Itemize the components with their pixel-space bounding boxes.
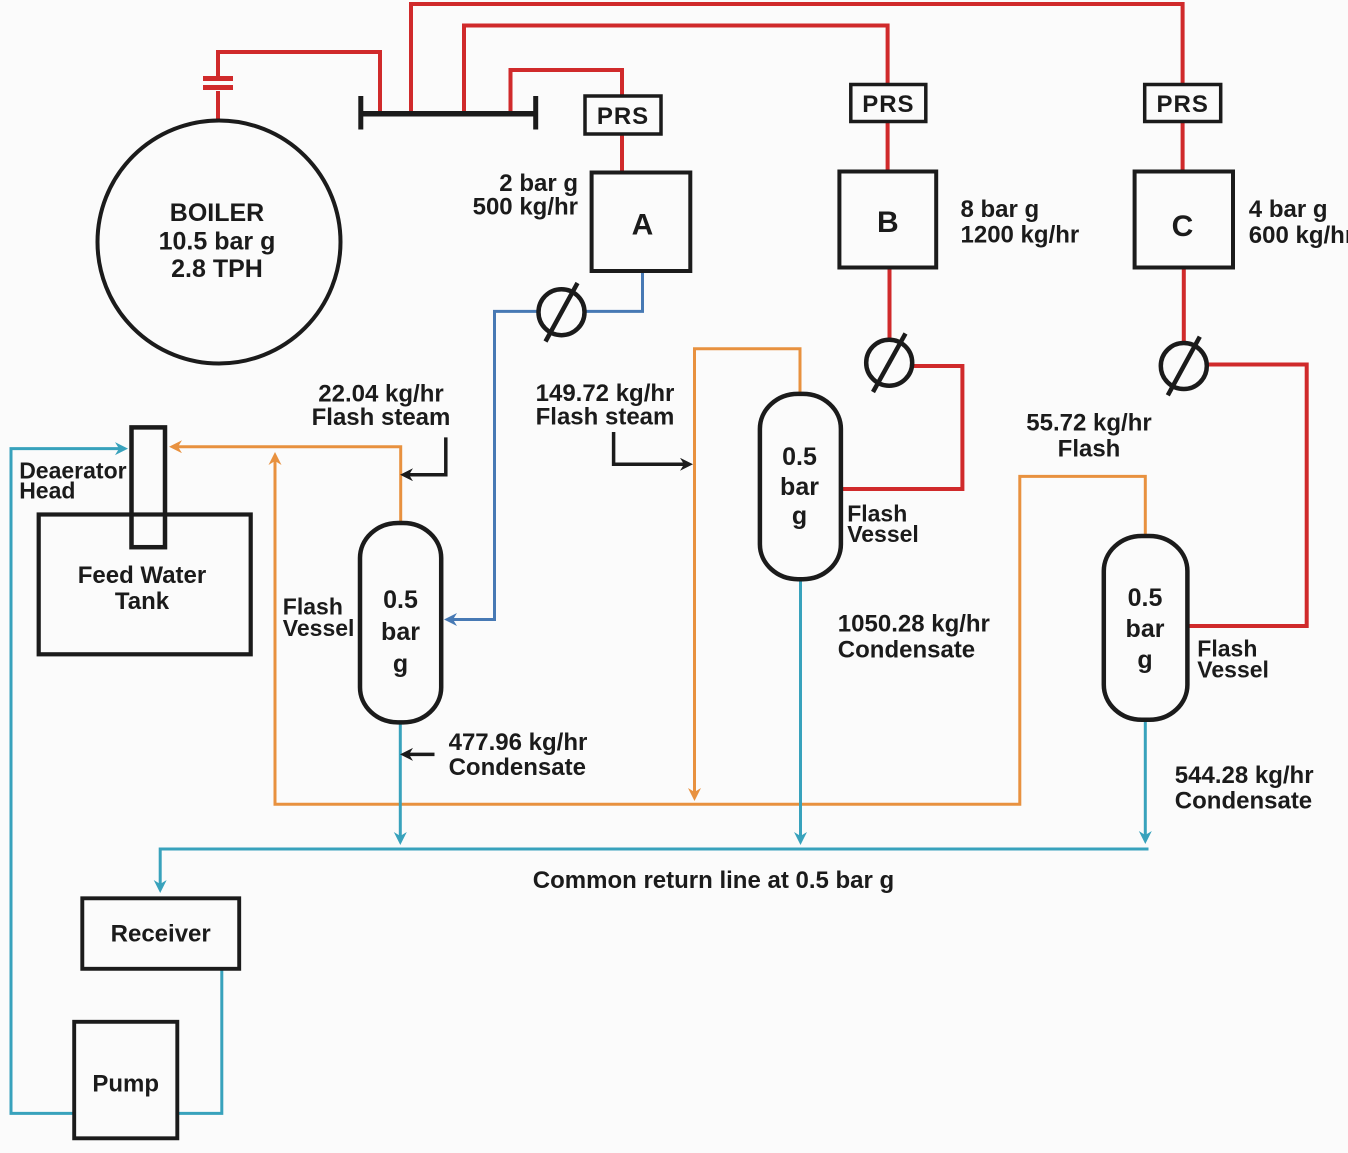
- wire header to PRS A (red): [511, 70, 623, 112]
- FV3 label: [1197, 636, 1269, 683]
- wire valve V2 to flash vessel FV2 (red): [843, 366, 962, 489]
- wire boiler steam riser (red): [218, 52, 380, 122]
- svg-text:Vessel: Vessel: [283, 615, 355, 641]
- svg-text:bar: bar: [780, 473, 819, 501]
- boiler label: [159, 199, 276, 283]
- label 4 bar g / 600 kg/hr: [1249, 196, 1348, 249]
- boiler: [98, 121, 341, 364]
- wire header to PRS C (red, topmost): [411, 4, 1183, 112]
- flash vessel FV3: [1104, 536, 1188, 720]
- svg-text:Common return line at 0.5 bar: Common return line at 0.5 bar g: [533, 867, 894, 894]
- wire FV1 flash steam to deaerator head (orange, arrow): [173, 447, 401, 522]
- wire receiver to pump (cyan): [179, 969, 222, 1113]
- receiver: [82, 898, 239, 969]
- svg-text:4 bar g: 4 bar g: [1249, 196, 1328, 223]
- flash vessel FV1: [360, 523, 441, 722]
- label 477.96 kg/hr Condensate: [449, 729, 588, 781]
- svg-text:600 kg/hr: 600 kg/hr: [1249, 222, 1348, 249]
- svg-text:Condensate: Condensate: [1175, 788, 1312, 815]
- svg-text:PRS: PRS: [862, 91, 914, 118]
- label 1050.28 kg/hr Condensate: [838, 611, 990, 664]
- PRS C box: [1145, 85, 1221, 122]
- svg-text:Condensate: Condensate: [838, 637, 975, 664]
- valve V2 (below B): [866, 334, 912, 393]
- svg-text:bar: bar: [381, 618, 420, 646]
- deaerator head: [132, 427, 166, 547]
- wire FV2 flash steam down to common flash line (orange, arrow): [695, 349, 801, 797]
- svg-text:Feed Water: Feed Water: [78, 562, 206, 589]
- valve V3 (below C): [1161, 337, 1207, 396]
- steam user box C: [1135, 172, 1233, 268]
- pump: [74, 1022, 177, 1139]
- pointer for 477.96 kg/hr label (black, arrow): [404, 753, 435, 757]
- label 8 bar g / 1200 kg/hr: [961, 196, 1080, 248]
- svg-text:Vessel: Vessel: [1197, 656, 1269, 682]
- svg-text:Flash steam: Flash steam: [312, 404, 451, 431]
- steam header manifold: [361, 96, 536, 130]
- wire FV1 condensate to return line (cyan, arrow): [399, 723, 402, 841]
- feed water tank: [39, 515, 251, 655]
- pointer for 22.04 kg/hr label (black, arrow): [404, 437, 446, 474]
- wire pump discharge to deaerator head (cyan, arrow): [11, 449, 124, 1114]
- svg-text:Vessel: Vessel: [847, 521, 919, 547]
- valve V1 (below A): [539, 283, 585, 342]
- svg-text:Flash steam: Flash steam: [536, 404, 675, 431]
- wire valve V1 to flash vessel FV1 (blue, arrow): [448, 311, 539, 619]
- svg-text:Flash: Flash: [1058, 435, 1121, 462]
- svg-text:Head: Head: [19, 477, 75, 503]
- svg-text:PRS: PRS: [1157, 91, 1209, 118]
- label 2 bar g / 500 kg/hr: [473, 170, 578, 221]
- svg-text:0.5: 0.5: [782, 443, 817, 471]
- svg-text:544.28 kg/hr: 544.28 kg/hr: [1175, 762, 1314, 789]
- svg-text:1200 kg/hr: 1200 kg/hr: [961, 221, 1080, 248]
- wire FV3 flash steam + common flash line up to deaerator (orange, arrow): [275, 456, 1145, 804]
- svg-text:477.96 kg/hr: 477.96 kg/hr: [449, 729, 588, 756]
- svg-text:bar: bar: [1126, 615, 1165, 643]
- wire PRS B to box B (red): [886, 121, 890, 172]
- wire valve V3 to flash vessel FV3 (red): [1190, 365, 1307, 627]
- wire PRS A to box A (red): [620, 134, 624, 173]
- wire box B to valve V2 (red): [888, 268, 892, 342]
- svg-text:8 bar g: 8 bar g: [961, 196, 1040, 223]
- deaerator head label: [19, 458, 126, 504]
- svg-text:BOILER: BOILER: [170, 199, 264, 227]
- svg-text:0.5: 0.5: [383, 586, 418, 614]
- FV2 label: [847, 501, 919, 548]
- svg-text:2.8 TPH: 2.8 TPH: [171, 255, 263, 283]
- wire box A to valve V1 (blue): [585, 271, 643, 311]
- pointer for 149.72 kg/hr label (black, arrow): [614, 432, 689, 464]
- svg-text:Receiver: Receiver: [111, 921, 211, 948]
- wire PRS C to box C (red): [1181, 121, 1185, 172]
- steam user box A: [592, 173, 691, 272]
- FV1 label: [283, 594, 355, 642]
- wire FV3 condensate to return line (cyan, arrow): [1144, 721, 1147, 840]
- svg-text:10.5 bar g: 10.5 bar g: [159, 228, 276, 256]
- PRS A box: [585, 96, 661, 134]
- label 55.72 kg/hr Flash: [1026, 409, 1151, 462]
- svg-text:Tank: Tank: [115, 588, 170, 615]
- svg-text:0.5: 0.5: [1128, 584, 1163, 612]
- wire header to PRS B (red): [464, 26, 888, 113]
- svg-text:PRS: PRS: [597, 103, 649, 130]
- svg-text:A: A: [632, 209, 654, 242]
- svg-text:500 kg/hr: 500 kg/hr: [473, 194, 578, 221]
- steam user box B: [839, 172, 936, 268]
- svg-text:Condensate: Condensate: [449, 754, 586, 781]
- label 149.72 kg/hr Flash steam: [536, 380, 675, 431]
- safety valve bars on boiler riser: [203, 79, 233, 88]
- label 22.04 kg/hr Flash steam: [312, 380, 451, 431]
- wire common return line into receiver (cyan, arrow): [160, 849, 1148, 889]
- svg-text:B: B: [877, 206, 899, 239]
- svg-text:g: g: [1137, 646, 1152, 674]
- PRS B box: [851, 85, 926, 122]
- svg-text:55.72 kg/hr: 55.72 kg/hr: [1026, 409, 1151, 436]
- flash vessel FV2: [760, 394, 841, 579]
- svg-text:1050.28 kg/hr: 1050.28 kg/hr: [838, 611, 990, 638]
- wire FV2 condensate to return line (cyan, arrow): [799, 580, 802, 841]
- label 544.28 kg/hr Condensate: [1175, 762, 1314, 815]
- svg-text:C: C: [1172, 210, 1194, 243]
- svg-text:g: g: [792, 502, 807, 530]
- svg-text:g: g: [393, 650, 408, 678]
- wire box C to valve V3 (red): [1182, 268, 1186, 345]
- svg-text:Pump: Pump: [92, 1071, 159, 1098]
